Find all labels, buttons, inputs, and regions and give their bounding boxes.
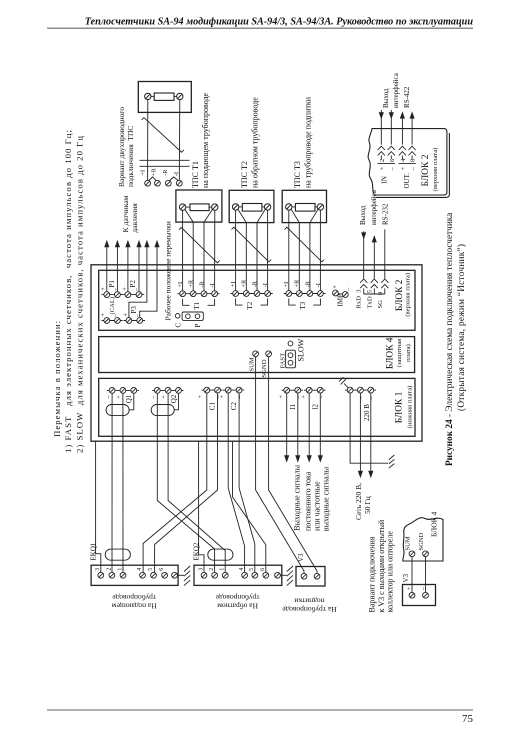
- svg-text:С: С: [174, 323, 182, 328]
- svg-text:подключения ТПС: подключения ТПС: [126, 126, 135, 187]
- wire Q1 shield: [129, 393, 134, 410]
- wire T3 -I: [319, 210, 321, 291]
- svg-text:6: 6: [389, 158, 396, 162]
- shield loop Q2: [151, 405, 174, 416]
- svg-text:Q2: Q2: [170, 394, 178, 403]
- svg-text:Рисунок 24 - Электрическая схе: Рисунок 24 - Электрическая схема подключ…: [445, 213, 455, 466]
- page footer rule: [47, 709, 473, 711]
- wire RS-422 IN+ with arrow: [379, 110, 384, 145]
- variant wire left: [147, 100, 149, 181]
- terminal group I1: [278, 387, 303, 409]
- svg-text:Т3: Т3: [299, 301, 307, 309]
- cable mark T3: [285, 227, 325, 262]
- wire C1 coil a: [143, 393, 207, 573]
- RTD sensor T3 box: [282, 190, 326, 222]
- note: jumper positions FAST/SLOW: [52, 129, 85, 453]
- svg-text:+I: +I: [140, 170, 147, 176]
- label EKQ1 pipe: [112, 593, 157, 611]
- wire I2+ output arrow: [307, 393, 312, 463]
- svg-text:+: +: [101, 287, 107, 291]
- wire TxD up with arrow out: [372, 235, 377, 278]
- svg-text:+: +: [278, 395, 285, 399]
- svg-text:давления: давления: [130, 203, 139, 233]
- terminal group I2: [300, 387, 325, 409]
- wire SG up: [384, 229, 386, 278]
- svg-text:+: +: [406, 586, 413, 590]
- svg-text:FAST: FAST: [279, 353, 286, 369]
- variant bus line 1: [140, 159, 190, 161]
- wire RxD up with arrow in: [361, 231, 366, 278]
- svg-text:2: 2: [209, 568, 215, 571]
- svg-text:2: 2: [379, 159, 386, 162]
- svg-text:(нижняя плата): (нижняя плата): [406, 386, 413, 429]
- shield loop Q1: [106, 405, 129, 416]
- wire Q1 signal a: [111, 393, 113, 572]
- terminal group C1: [197, 387, 222, 410]
- wire Q2 signal b: [168, 393, 225, 572]
- svg-text:-R: -R: [162, 169, 169, 176]
- variant cable mark: [142, 118, 184, 153]
- earth symbol at mains: [389, 455, 395, 468]
- svg-text:коллектор или оптореле: коллектор или оптореле: [386, 531, 395, 613]
- terminal group P2: [122, 280, 144, 298]
- terminal group C2: [219, 387, 245, 410]
- two-wire variant TPS box: [138, 82, 191, 113]
- RS-422 pin IN+ (2): [378, 146, 385, 159]
- svg-text:220 В: 220 В: [363, 404, 371, 421]
- wire P3- to pressure sensor arrow: [140, 240, 160, 318]
- V3 open-collector variant: BLOK 4 torn plate: [403, 518, 443, 561]
- svg-text:+: +: [400, 167, 407, 171]
- variant wire SGND to V3-: [425, 557, 427, 593]
- svg-text:К датчикам: К датчикам: [121, 195, 130, 232]
- cable mark T1: [179, 227, 220, 262]
- variant V3 box: [403, 585, 436, 606]
- svg-text:БЛОК 1: БЛОК 1: [395, 391, 405, 423]
- svg-text:P1: P1: [108, 280, 116, 288]
- svg-text:4: 4: [137, 568, 143, 571]
- svg-text:(верхняя плата): (верхняя плата): [405, 273, 412, 317]
- svg-text:–: –: [346, 287, 352, 292]
- wire T2 -R: [257, 209, 265, 290]
- svg-text:–: –: [318, 395, 325, 400]
- svg-text:трубопроводе: трубопроводе: [112, 593, 157, 602]
- svg-text:ТПС Т2: ТПС Т2: [240, 161, 249, 188]
- wire Q2 shield: [174, 393, 178, 410]
- shield loop at EKQ2: [208, 549, 233, 560]
- terminal group 220V: [345, 387, 376, 421]
- wire RS-422 OUT- with arrow: [410, 111, 415, 144]
- svg-text:–: –: [150, 395, 157, 400]
- svg-text:Вариант двухпроводного: Вариант двухпроводного: [117, 107, 126, 187]
- svg-text:1: 1: [220, 568, 226, 571]
- svg-text:–: –: [105, 395, 112, 400]
- svg-text:EKQ1: EKQ1: [89, 542, 97, 560]
- terminal group T1: [177, 279, 220, 310]
- BLOK 2 (upper board) row box: [99, 270, 415, 330]
- wire RS-422 OUT+ with arrow: [400, 111, 405, 144]
- RS-422 pin OUT- (8): [409, 146, 416, 159]
- terminal group (CAL): [101, 297, 123, 323]
- svg-text:+: +: [123, 313, 129, 317]
- wire T1 +R: [185, 209, 193, 290]
- wire P2- to pressure sensor arrow: [136, 240, 141, 292]
- terminal SGND: [261, 351, 272, 378]
- wire EKQ1 earth: [177, 574, 184, 576]
- wire P2+ to pressure sensor arrow: [125, 240, 130, 292]
- RS-422 interface plate shadow: [376, 133, 449, 197]
- svg-text:Сеть 220 В,: Сеть 220 В,: [354, 483, 363, 520]
- wire T3 +I: [288, 210, 290, 291]
- BLOK 4 (protection board) row box: [99, 337, 415, 373]
- svg-text:Рабочее положение перемычки: Рабочее положение перемычки: [164, 221, 173, 320]
- svg-text:RS-422: RS-422: [403, 86, 411, 108]
- RTD sensor T2 box: [229, 190, 274, 222]
- jumper C/P working position: [174, 312, 203, 328]
- svg-text:БЛОК 4: БЛОК 4: [430, 511, 439, 537]
- svg-text:EKQ2: EKQ2: [193, 542, 201, 560]
- svg-text:5: 5: [249, 568, 255, 571]
- svg-text:2) SLOW для механических счет: 2) SLOW для механических счетчиков, част…: [74, 135, 84, 453]
- svg-text:5: 5: [148, 568, 154, 571]
- svg-text:(CAL): (CAL): [109, 297, 116, 315]
- svg-text:Q1: Q1: [125, 394, 133, 403]
- connector pin RxD: [360, 279, 367, 294]
- svg-text:–: –: [389, 167, 396, 172]
- wire EKQ1 terminal 3 stub: [96, 442, 101, 573]
- svg-text:SGND: SGND: [261, 359, 268, 377]
- wire C2 coil a: [228, 393, 244, 573]
- svg-text:БЛОК 4: БЛОК 4: [385, 337, 395, 369]
- terminal group T2: [230, 279, 273, 310]
- svg-text:плата): плата): [405, 344, 412, 362]
- svg-text:трубопроводе: трубопроводе: [215, 593, 260, 602]
- svg-text:+: +: [300, 395, 307, 399]
- svg-text:RxD 3: RxD 3: [356, 289, 363, 309]
- make-up water meter V3 box: [296, 567, 325, 587]
- page header rule: [47, 27, 473, 29]
- wire SUM to V3: [256, 357, 304, 574]
- wire T2 +I: [235, 210, 237, 291]
- svg-text:IN: IN: [380, 176, 388, 183]
- BLOK 1 (lower board) row box: [99, 378, 415, 436]
- RS-422 group bracket IN: [378, 162, 396, 164]
- flow transducer EKQ1 box: [91, 565, 178, 585]
- svg-text:8: 8: [410, 158, 417, 162]
- svg-text:V3: V3: [297, 553, 305, 562]
- svg-text:1: 1: [117, 568, 123, 571]
- svg-text:50 Гц: 50 Гц: [363, 496, 372, 514]
- variant wire right: [178, 100, 181, 181]
- svg-text:или частотные: или частотные: [313, 481, 322, 531]
- connector pin SG: [381, 279, 388, 294]
- variant wire SUM to V3+: [411, 557, 413, 593]
- svg-text:SUM: SUM: [248, 357, 255, 371]
- RTD sensor T1 box: [176, 190, 222, 222]
- wire RS-422 IN- with arrow: [389, 110, 394, 145]
- svg-text:Выход: Выход: [359, 205, 367, 225]
- terminal group P1: [101, 280, 123, 298]
- svg-text:Т1: Т1: [193, 301, 201, 309]
- terminal pair IMP: [333, 285, 353, 307]
- svg-text:IMP: IMP: [336, 294, 344, 307]
- wire EKQ2 earth: [280, 574, 286, 576]
- label EKQ2 pipe: [215, 593, 260, 611]
- wire T2 -I: [267, 210, 269, 291]
- variant terminal SUM: [405, 536, 415, 557]
- wire I2- output arrow: [318, 393, 323, 463]
- svg-text:P2: P2: [129, 280, 137, 288]
- wire to EKQ2 terminal 6: [233, 442, 266, 573]
- svg-text:БЛОК 2: БЛОК 2: [395, 279, 405, 311]
- terminal group P3: [123, 306, 145, 324]
- svg-text:(верхняя плата): (верхняя плата): [432, 148, 439, 192]
- earth symbol at EKQ2: [287, 566, 293, 586]
- main unit outer box: [91, 265, 422, 441]
- wire P1- to pressure sensor arrow: [115, 240, 120, 292]
- wire C1 coil b: [155, 393, 218, 573]
- svg-text:6: 6: [159, 568, 165, 571]
- RS-422 pin IN- (6): [388, 146, 395, 159]
- variant jumper +I/+R: [149, 177, 156, 181]
- svg-text:–: –: [410, 167, 417, 172]
- svg-text:3: 3: [198, 568, 204, 571]
- svg-text:+: +: [219, 395, 226, 399]
- connector pin TxD: [371, 279, 378, 294]
- svg-text:+: +: [333, 285, 339, 289]
- variant terminal -I: [176, 180, 182, 186]
- cable mark T2: [232, 227, 272, 262]
- svg-text:на обратном трубопроводе: на обратном трубопроводе: [250, 97, 259, 188]
- wire 220V neutral with arrow: [368, 393, 373, 478]
- svg-text:интерфейса: интерфейса: [392, 72, 400, 108]
- wire I1- output arrow: [295, 393, 300, 463]
- label V3 pipe: [282, 597, 337, 615]
- wire T1 -I: [214, 210, 216, 290]
- svg-text:+: +: [101, 313, 107, 317]
- RS-232 pin bracket: [364, 293, 385, 295]
- chassis earth mark at 220V: [339, 377, 348, 388]
- svg-text:SG 9: SG 9: [377, 291, 384, 308]
- svg-text:OUT.: OUT.: [403, 173, 411, 189]
- svg-text:Т2: Т2: [246, 301, 254, 309]
- svg-text:4: 4: [400, 158, 407, 162]
- variant jumper -R/-I: [170, 177, 179, 181]
- svg-text:+: +: [122, 287, 128, 291]
- RS-422 interface plate (BLOK 2 upper board): [368, 129, 447, 195]
- wire T1 +I: [182, 210, 184, 290]
- svg-text:2: 2: [106, 568, 112, 571]
- flow transducer EKQ2 box: [194, 565, 282, 585]
- wire Q2 signal a: [157, 393, 214, 572]
- wire Q1 signal b: [122, 393, 124, 572]
- svg-text:ТПС Т1: ТПС Т1: [191, 161, 200, 188]
- svg-text:V3: V3: [402, 573, 410, 582]
- svg-text:С1: С1: [209, 402, 217, 411]
- terminal group Q2: [150, 388, 184, 404]
- svg-text:P3: P3: [130, 306, 138, 314]
- svg-text:~: ~: [369, 396, 376, 400]
- svg-text:(Открытая система, режим “Исто: (Открытая система, режим “Источник”): [456, 244, 467, 411]
- wire P3+ to pressure sensor arrow: [129, 240, 150, 318]
- svg-text:~: ~: [358, 396, 365, 400]
- wire I1+ output arrow: [284, 393, 289, 463]
- wire EKQ2 terminal 3 stub: [199, 442, 204, 573]
- svg-text:Теплосчетчики SA-94 модификаци: Теплосчетчики SA-94 модификации SA-94/3,…: [85, 17, 474, 28]
- svg-text:Перемычка в положении:: Перемычка в положении:: [52, 320, 62, 437]
- svg-text:-I: -I: [173, 172, 180, 176]
- variant terminal +R: [155, 180, 161, 186]
- svg-text:1) FAST для электронных счет: 1) FAST для электронных счетчиков, часто…: [63, 129, 73, 453]
- svg-text:на подающем трубопроводе: на подающем трубопроводе: [201, 92, 210, 188]
- svg-text:БЛОК 2: БЛОК 2: [421, 154, 431, 186]
- wire 220V line with arrow: [358, 393, 363, 478]
- wire C2 coil b: [239, 393, 255, 573]
- svg-text:на трубопроводе подпитки: на трубопроводе подпитки: [303, 96, 312, 188]
- svg-text:постоянного тока: постоянного тока: [303, 471, 312, 531]
- svg-text:+: +: [115, 395, 122, 399]
- svg-text:Вариант подключения: Вариант подключения: [367, 536, 376, 612]
- wire SGND to V3: [269, 357, 317, 574]
- svg-text:Выход: Выход: [382, 88, 390, 108]
- wire P1+ to pressure sensor arrow: [104, 240, 109, 292]
- variant bus line 2: [140, 165, 190, 167]
- earth symbol at EKQ1: [184, 566, 190, 586]
- svg-text:(защитная: (защитная: [396, 339, 403, 368]
- svg-text:I1: I1: [289, 403, 297, 409]
- wire T3 +R: [291, 209, 299, 290]
- svg-text:+: +: [161, 395, 168, 399]
- svg-text:SLOW: SLOW: [296, 338, 305, 361]
- svg-text:6: 6: [260, 568, 266, 571]
- svg-text:выходные сигналы: выходные сигналы: [322, 466, 331, 531]
- svg-text:С2: С2: [230, 402, 238, 411]
- svg-text:3: 3: [95, 568, 101, 571]
- svg-text:–: –: [419, 586, 426, 591]
- svg-text:+R: +R: [151, 167, 158, 175]
- wire protective earth: [350, 393, 388, 463]
- wire T1 -R: [204, 209, 213, 290]
- svg-text:TxD 5: TxD 5: [366, 289, 373, 308]
- svg-text:SGND: SGND: [418, 532, 425, 550]
- svg-text:подпитки: подпитки: [294, 597, 324, 606]
- terminal group Q1: [105, 388, 139, 404]
- wire T2 +R: [238, 209, 246, 290]
- jumper FAST/SLOW: [279, 338, 305, 368]
- svg-text:+: +: [197, 395, 204, 399]
- RS-422 pin OUT+ (4): [399, 146, 406, 159]
- variant terminal +I: [145, 180, 151, 186]
- RS-422 group bracket OUT: [399, 162, 416, 164]
- shield loop at EKQ1: [105, 549, 130, 560]
- wire T3 -R: [310, 209, 318, 290]
- variant terminal -R: [165, 180, 171, 186]
- svg-text:SUM: SUM: [405, 536, 412, 550]
- svg-text:Р: Р: [194, 324, 202, 328]
- svg-text:Выходные сигналы: Выходные сигналы: [293, 464, 302, 530]
- svg-text:RS-232: RS-232: [381, 203, 389, 225]
- svg-text:I2: I2: [311, 403, 319, 409]
- terminal group T3: [283, 279, 325, 310]
- variant terminal SGND: [418, 532, 428, 556]
- svg-text:к V3 с выходами открытый: к V3 с выходами открытый: [377, 519, 386, 612]
- svg-text:4: 4: [239, 568, 245, 571]
- terminal SUM: [248, 351, 258, 372]
- svg-text:75: 75: [462, 713, 474, 725]
- svg-text:ТПС Т3: ТПС Т3: [293, 161, 302, 188]
- svg-text:+: +: [379, 167, 386, 171]
